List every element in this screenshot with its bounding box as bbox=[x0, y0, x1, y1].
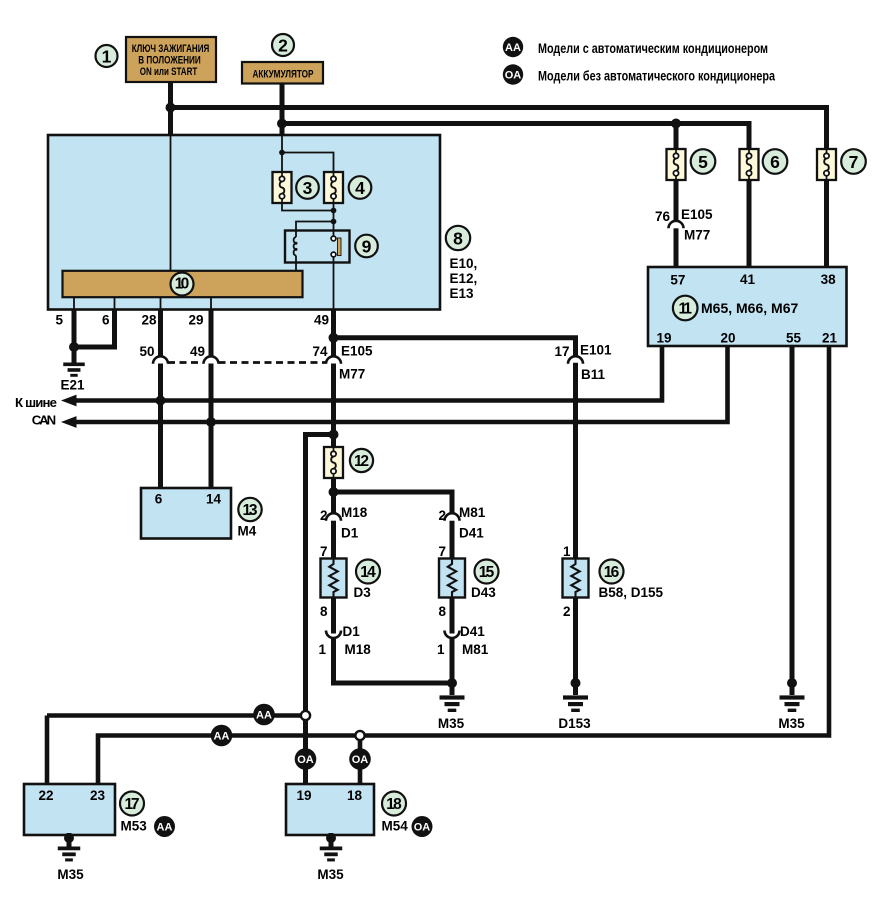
svg-text:74: 74 bbox=[312, 344, 328, 359]
svg-text:E10,: E10, bbox=[450, 256, 478, 271]
svg-text:2: 2 bbox=[320, 508, 328, 523]
svg-text:AA: AA bbox=[505, 42, 521, 54]
svg-text:M77: M77 bbox=[684, 228, 710, 243]
svg-text:21: 21 bbox=[822, 331, 838, 346]
svg-text:М35: М35 bbox=[57, 867, 84, 882]
svg-text:1: 1 bbox=[563, 544, 571, 559]
svg-text:E105: E105 bbox=[681, 207, 713, 222]
svg-text:К шине: К шине bbox=[15, 395, 57, 410]
svg-text:2: 2 bbox=[438, 508, 446, 523]
svg-text:7: 7 bbox=[849, 152, 859, 172]
svg-text:6: 6 bbox=[102, 313, 110, 328]
svg-text:OA: OA bbox=[505, 69, 522, 81]
svg-text:22: 22 bbox=[38, 788, 53, 803]
svg-text:19: 19 bbox=[296, 788, 311, 803]
svg-text:M35: M35 bbox=[438, 716, 465, 731]
svg-text:B58, D155: B58, D155 bbox=[599, 585, 664, 600]
svg-text:M81: M81 bbox=[459, 505, 486, 520]
svg-text:M35: M35 bbox=[778, 716, 805, 731]
svg-text:CAN: CAN bbox=[32, 413, 56, 428]
svg-text:50: 50 bbox=[139, 344, 154, 359]
svg-text:OA: OA bbox=[297, 754, 314, 766]
svg-text:1: 1 bbox=[318, 642, 326, 657]
svg-text:2: 2 bbox=[563, 604, 571, 619]
svg-text:57: 57 bbox=[670, 273, 685, 288]
svg-text:14: 14 bbox=[360, 564, 376, 581]
svg-text:E105: E105 bbox=[341, 344, 373, 359]
svg-text:D153: D153 bbox=[558, 716, 591, 731]
svg-text:38: 38 bbox=[821, 272, 837, 287]
svg-text:15: 15 bbox=[479, 564, 495, 581]
svg-text:AA: AA bbox=[157, 821, 173, 833]
svg-text:M18: M18 bbox=[345, 642, 372, 657]
svg-text:8: 8 bbox=[453, 228, 463, 248]
svg-text:12: 12 bbox=[354, 453, 369, 470]
svg-text:29: 29 bbox=[188, 313, 203, 328]
svg-text:41: 41 bbox=[740, 272, 756, 287]
svg-text:17: 17 bbox=[125, 796, 140, 813]
svg-text:76: 76 bbox=[655, 209, 671, 224]
svg-text:11: 11 bbox=[678, 301, 692, 318]
svg-text:5: 5 bbox=[55, 313, 63, 328]
svg-text:13: 13 bbox=[243, 502, 258, 519]
svg-text:23: 23 bbox=[90, 788, 106, 803]
svg-text:18: 18 bbox=[386, 796, 402, 813]
svg-text:16: 16 bbox=[604, 564, 620, 581]
svg-text:B11: B11 bbox=[581, 367, 606, 382]
svg-text:2: 2 bbox=[278, 35, 288, 55]
svg-text:E21: E21 bbox=[60, 378, 85, 393]
svg-text:14: 14 bbox=[206, 492, 222, 507]
svg-text:8: 8 bbox=[438, 604, 446, 619]
svg-text:АККУМУЛЯТОР: АККУМУЛЯТОР bbox=[253, 69, 314, 81]
svg-text:M53: M53 bbox=[121, 819, 148, 834]
svg-text:D3: D3 bbox=[354, 585, 372, 600]
svg-text:10: 10 bbox=[175, 276, 190, 293]
svg-text:20: 20 bbox=[720, 331, 735, 346]
svg-text:6: 6 bbox=[770, 152, 780, 172]
svg-text:9: 9 bbox=[362, 236, 372, 256]
svg-text:3: 3 bbox=[303, 178, 313, 198]
svg-text:8: 8 bbox=[320, 604, 328, 619]
svg-text:В ПОЛОЖЕНИИ: В ПОЛОЖЕНИИ bbox=[138, 54, 201, 66]
svg-text:5: 5 bbox=[698, 152, 708, 172]
svg-text:AA: AA bbox=[214, 730, 230, 742]
svg-text:7: 7 bbox=[438, 544, 446, 559]
svg-text:55: 55 bbox=[786, 331, 802, 346]
svg-text:Модели без автоматического кон: Модели без автоматического кондиционера bbox=[538, 69, 775, 84]
svg-text:M77: M77 bbox=[339, 367, 365, 382]
svg-text:D43: D43 bbox=[471, 585, 496, 600]
svg-text:M54: M54 bbox=[382, 819, 409, 834]
svg-text:M18: M18 bbox=[341, 505, 368, 520]
svg-text:М35: М35 bbox=[317, 867, 344, 882]
svg-text:D41: D41 bbox=[459, 526, 484, 541]
svg-text:19: 19 bbox=[656, 331, 671, 346]
svg-text:1: 1 bbox=[437, 642, 445, 657]
svg-text:КЛЮЧ ЗАЖИГАНИЯ: КЛЮЧ ЗАЖИГАНИЯ bbox=[132, 43, 210, 55]
svg-text:E13: E13 bbox=[450, 286, 475, 301]
svg-text:E12,: E12, bbox=[450, 271, 478, 286]
svg-text:ON или START: ON или START bbox=[140, 66, 198, 78]
svg-text:6: 6 bbox=[155, 492, 163, 507]
svg-text:4: 4 bbox=[355, 178, 365, 198]
svg-text:Модели с автоматическим кондиц: Модели с автоматическим кондиционером bbox=[538, 41, 768, 56]
svg-text:18: 18 bbox=[347, 788, 363, 803]
svg-text:M65, M66, M67: M65, M66, M67 bbox=[701, 300, 798, 316]
svg-text:OA: OA bbox=[352, 754, 369, 766]
svg-text:49: 49 bbox=[190, 344, 205, 359]
svg-text:AA: AA bbox=[256, 709, 272, 721]
svg-text:17: 17 bbox=[554, 344, 569, 359]
svg-text:7: 7 bbox=[320, 544, 328, 559]
svg-text:E101: E101 bbox=[580, 343, 612, 358]
svg-text:D1: D1 bbox=[341, 526, 359, 541]
svg-text:OA: OA bbox=[414, 821, 431, 833]
svg-text:28: 28 bbox=[141, 313, 157, 328]
svg-text:M4: M4 bbox=[238, 524, 257, 539]
svg-text:M81: M81 bbox=[462, 642, 489, 657]
svg-text:D1: D1 bbox=[343, 624, 361, 639]
svg-text:49: 49 bbox=[314, 313, 329, 328]
svg-text:D41: D41 bbox=[460, 624, 485, 639]
svg-text:1: 1 bbox=[102, 46, 112, 66]
